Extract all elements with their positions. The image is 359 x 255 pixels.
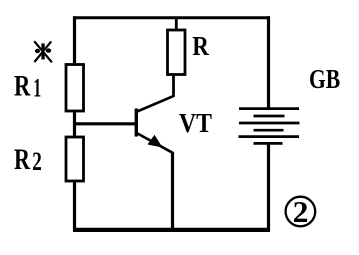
wire emitter column (to bottom rail): [171, 152, 174, 231]
resistor R2: [66, 137, 84, 181]
svg-text:GB: GB: [309, 64, 340, 94]
wire left column mid (R1 to R2, through base node): [73, 111, 76, 138]
svg-text:VT: VT: [179, 108, 212, 138]
circled number 2: [286, 194, 316, 229]
wire R top lead: [175, 17, 178, 31]
label R1: [14, 70, 41, 103]
wire collector lead vertical: [172, 75, 175, 98]
label GB: [309, 64, 340, 94]
wire top rail: [73, 16, 270, 19]
wire bottom rail: [73, 228, 270, 232]
resistor R: [168, 30, 186, 75]
transistor VT: [136, 96, 174, 153]
wire right column bottom (battery to bottom rail): [267, 143, 270, 231]
svg-text:2: 2: [293, 194, 309, 229]
asterisk marker: [34, 41, 52, 62]
svg-text:R: R: [192, 31, 209, 61]
label R: [192, 31, 209, 61]
label VT: [179, 108, 212, 138]
node base junction / wire base lead: [73, 122, 137, 125]
resistor R1: [66, 65, 84, 112]
wire left column bottom (R2 to bottom rail): [73, 181, 76, 231]
wire right column top (top rail to battery): [267, 16, 270, 108]
svg-text:R: R: [14, 70, 31, 103]
svg-text:2: 2: [32, 147, 42, 176]
wire left column top (top rail to R1): [73, 16, 76, 66]
label R2: [14, 143, 42, 176]
svg-text:R: R: [14, 143, 30, 176]
svg-text:1: 1: [33, 73, 41, 102]
battery GB: [239, 109, 300, 144]
